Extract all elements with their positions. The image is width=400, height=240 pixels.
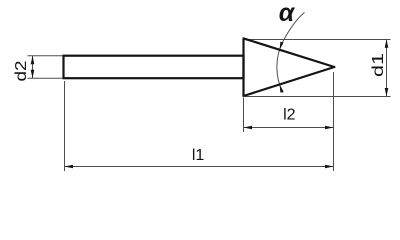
- svg-text:d1: d1: [370, 53, 387, 77]
- svg-text:l1: l1: [192, 147, 205, 164]
- svg-text:d2: d2: [13, 60, 30, 81]
- svg-text:l2: l2: [283, 106, 296, 123]
- svg-text:α: α: [279, 0, 296, 27]
